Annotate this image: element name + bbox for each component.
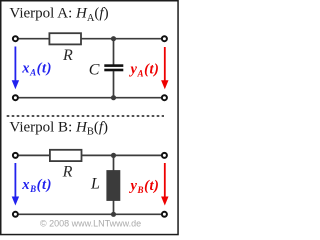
svg-text:L: L <box>90 176 100 193</box>
svg-text:© 2008 www.LNTwww.de: © 2008 www.LNTwww.de <box>40 219 141 229</box>
svg-text:R: R <box>62 47 73 64</box>
svg-text:xB(t): xB(t) <box>21 177 52 194</box>
svg-text:Vierpol B: HB(f): Vierpol B: HB(f) <box>9 119 108 137</box>
svg-text:C: C <box>89 62 100 79</box>
svg-text:Vierpol A: HA(f): Vierpol A: HA(f) <box>9 6 108 24</box>
svg-text:xA(t): xA(t) <box>21 61 52 78</box>
svg-text:yB(t): yB(t) <box>129 178 160 195</box>
svg-text:yA(t): yA(t) <box>129 61 160 78</box>
svg-text:R: R <box>62 163 73 180</box>
